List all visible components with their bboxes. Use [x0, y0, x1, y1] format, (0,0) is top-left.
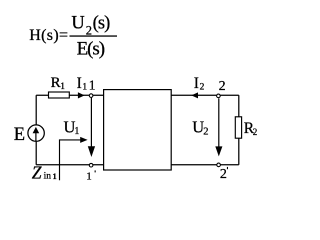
svg-text:R: R: [51, 75, 61, 91]
svg-text:2: 2: [203, 126, 208, 137]
svg-text:2: 2: [219, 79, 226, 94]
svg-text:(s): (s): [93, 14, 111, 34]
svg-text:1: 1: [89, 78, 96, 93]
svg-text:2: 2: [253, 127, 258, 137]
svg-text:in: in: [44, 172, 52, 182]
svg-text:H(s)=: H(s)=: [29, 27, 68, 44]
svg-text:1: 1: [60, 81, 65, 91]
svg-text:I: I: [77, 75, 82, 92]
svg-text:E: E: [14, 125, 25, 145]
svg-text:2: 2: [200, 82, 205, 92]
svg-text:2: 2: [220, 167, 227, 182]
svg-text:1: 1: [53, 172, 57, 181]
svg-text:1: 1: [86, 170, 92, 182]
svg-text:Z: Z: [32, 163, 42, 183]
svg-text:E(s): E(s): [77, 39, 105, 60]
svg-text:U: U: [71, 14, 84, 34]
svg-text:1: 1: [74, 126, 79, 137]
svg-text:1: 1: [82, 82, 87, 92]
svg-text:I: I: [194, 75, 199, 92]
